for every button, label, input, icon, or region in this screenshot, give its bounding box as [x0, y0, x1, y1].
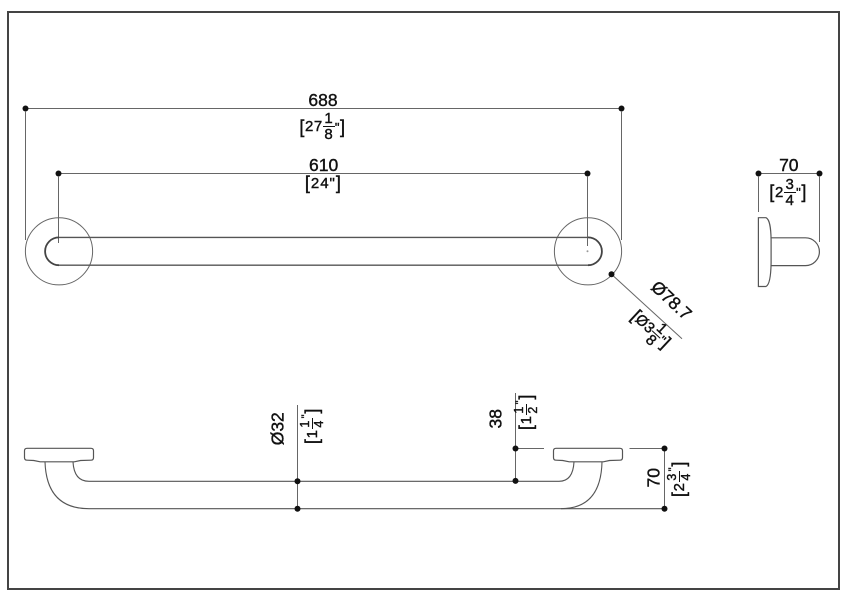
extension line 688 right	[621, 111, 623, 240]
bar neck outer left	[45, 462, 89, 509]
label 24 inch	[283, 174, 363, 193]
bar neck inner left	[73, 462, 89, 482]
extension line 610 right	[587, 176, 589, 246]
extension line 610 left	[58, 176, 60, 243]
label 2 3/4 inch top right	[753, 177, 823, 207]
bar neck inner right	[559, 462, 574, 482]
bar outline plan bottom	[59, 264, 588, 266]
dimension line 70 bottom right	[662, 446, 668, 512]
flange circle left	[25, 218, 92, 285]
bar end cap right	[588, 237, 602, 265]
wall extension line right of right plate	[630, 448, 665, 450]
leader line diameter callout	[609, 271, 683, 338]
label diameter 32 rotated	[269, 411, 287, 445]
flange plate side view	[758, 218, 771, 287]
label 1 1/4 inch rotated	[299, 408, 325, 444]
label diameter 78.7 rotated	[647, 278, 694, 324]
flange circle right	[554, 218, 621, 285]
wall plate elevation right	[554, 448, 623, 462]
extension line 688 left	[25, 111, 27, 240]
label 2 3/4 inch bottom right	[666, 461, 692, 497]
bar neck outer right	[561, 462, 602, 509]
bar elevation bottom line	[89, 508, 665, 510]
dimension line 610	[56, 171, 591, 177]
label 688	[283, 92, 363, 110]
label diameter 3 1/8 inch rotated	[625, 303, 678, 355]
wall plate elevation left	[25, 448, 94, 462]
dimension line 688	[23, 106, 625, 112]
label 38 rotated	[487, 408, 505, 428]
dimension line 38	[513, 393, 519, 484]
bar side view	[771, 238, 820, 266]
label 70 bottom right	[646, 468, 664, 488]
label 610	[284, 157, 364, 175]
dimension line 70 top right	[756, 171, 823, 177]
bar outline plan top	[59, 236, 588, 238]
extension line 70 right	[819, 176, 821, 242]
label 27 1/8 inch	[283, 112, 363, 142]
bar end cap left	[45, 237, 59, 265]
label 70 top right	[759, 157, 819, 175]
dimension line diameter 32	[295, 405, 301, 512]
bar elevation top line	[89, 480, 559, 482]
label 1 1/2 inch rotated	[513, 394, 539, 430]
wall extension line left of right plate	[516, 448, 545, 450]
extension line 70 left	[758, 176, 760, 212]
flange center mark right	[587, 250, 589, 252]
